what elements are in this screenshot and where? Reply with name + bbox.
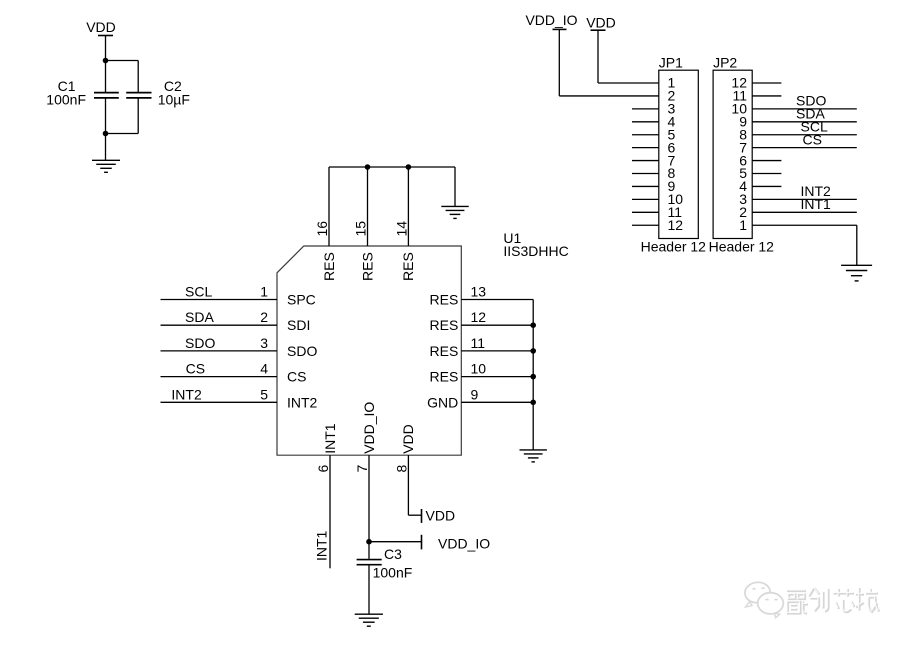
capacitor C2 10uF xyxy=(126,78,190,108)
svg-text:JP1: JP1 xyxy=(659,54,683,70)
wire stub JP2 pin 5 xyxy=(752,173,781,175)
wire C2 branch bottom xyxy=(106,98,139,134)
wire stub JP1 pin 7 xyxy=(632,160,659,162)
svg-text:SCL: SCL xyxy=(185,284,212,300)
svg-text:Header 12: Header 12 xyxy=(709,238,775,254)
node junction right bus xyxy=(530,400,536,406)
svg-text:VDD_IO: VDD_IO xyxy=(525,12,577,28)
ground (top net) xyxy=(441,206,468,218)
svg-text:12: 12 xyxy=(668,217,684,233)
svg-text:SDI: SDI xyxy=(287,317,310,333)
wire net CS to pin 4 xyxy=(161,376,278,378)
svg-text:RES: RES xyxy=(430,369,459,385)
power port VDD (top-left) xyxy=(86,19,116,61)
svg-text:RES: RES xyxy=(430,343,459,359)
wire top RES net xyxy=(329,166,455,168)
svg-text:VDD_IO: VDD_IO xyxy=(438,536,490,552)
wire net INT1 (JP2 pin 2) xyxy=(752,211,857,213)
svg-text:INT2: INT2 xyxy=(171,386,202,402)
node junction pin 14 top xyxy=(406,164,412,170)
svg-text:VDD: VDD xyxy=(426,507,456,523)
svg-text:VDD: VDD xyxy=(586,15,616,31)
wire pin 8 (VDD) xyxy=(408,455,421,515)
svg-text:VDD_IO: VDD_IO xyxy=(361,402,377,454)
wire pin 16 (top) xyxy=(328,167,330,246)
wire net SDO (JP2 pin 10) xyxy=(752,108,857,110)
wire pin 6 (INT1) xyxy=(329,455,331,568)
svg-text:RES: RES xyxy=(321,252,337,281)
ground (right bus) xyxy=(520,450,547,462)
svg-text:RES: RES xyxy=(400,252,416,281)
wire C3 top lead xyxy=(368,542,370,559)
wire C3 bottom lead xyxy=(368,565,370,615)
wire net INT2 (JP2 pin 3) xyxy=(752,198,857,200)
node junction pin7 / C3 / VDD_IO port xyxy=(366,539,372,545)
wire pin 9 (right) xyxy=(461,401,533,403)
wire stub JP1 pin 5 xyxy=(632,134,659,136)
wire stub JP1 pin 6 xyxy=(632,147,659,149)
svg-text:10µF: 10µF xyxy=(158,92,190,108)
svg-text:14: 14 xyxy=(393,221,409,237)
ground (below C3) xyxy=(355,614,383,626)
wire net SDA to pin 2 xyxy=(161,324,278,326)
svg-text:1: 1 xyxy=(260,284,268,300)
watermark emboss highlight xyxy=(786,587,879,613)
wire pin 13 (right) xyxy=(461,299,533,301)
wire C2 branch top xyxy=(106,61,139,93)
wire pin 12 (right) xyxy=(461,324,533,326)
wire pin 11 (right) xyxy=(461,350,533,352)
power port VDD (bottom) xyxy=(422,507,456,523)
wire net SCL to pin 1 xyxy=(161,299,278,301)
wire net SCL (JP2 pin 8) xyxy=(752,134,857,136)
svg-text:6: 6 xyxy=(315,465,331,473)
svg-text:INT1: INT1 xyxy=(801,196,832,212)
wire pin 10 (right) xyxy=(461,376,533,378)
wire stub JP1 pin 11 xyxy=(632,211,659,213)
wire C1 top lead xyxy=(105,61,107,93)
svg-text:16: 16 xyxy=(314,221,330,237)
svg-text:Header 12: Header 12 xyxy=(641,238,707,254)
svg-text:INT1: INT1 xyxy=(314,530,330,561)
node junction right bus xyxy=(530,374,536,380)
node junction right bus xyxy=(530,348,536,354)
svg-text:100nF: 100nF xyxy=(373,565,413,581)
svg-text:5: 5 xyxy=(260,386,268,402)
svg-text:15: 15 xyxy=(353,221,369,237)
svg-text:RES: RES xyxy=(359,252,375,281)
designator U1 xyxy=(503,230,568,259)
svg-text:11: 11 xyxy=(471,335,486,351)
svg-text:CS: CS xyxy=(803,131,822,147)
svg-text:C3: C3 xyxy=(384,546,402,562)
wire to ground xyxy=(105,134,107,161)
watermark text rong-chuang-xin-cheng (drawn strokes) xyxy=(787,588,880,614)
svg-text:2: 2 xyxy=(260,309,268,325)
connector JP2 body (Header 12) xyxy=(713,70,752,238)
svg-text:CS: CS xyxy=(287,369,306,385)
power port VDD (top, to JP1 pin 1) xyxy=(586,15,659,83)
wire JP2 pin 1 to ground xyxy=(752,225,857,265)
svg-text:VDD: VDD xyxy=(400,424,416,454)
wire down to ground (top right) xyxy=(454,167,456,206)
watermark logo speech bubbles xyxy=(744,581,783,618)
node junction right bus xyxy=(530,322,536,328)
svg-text:10: 10 xyxy=(471,361,487,377)
wire pin 7 (VDD_IO) xyxy=(368,455,370,542)
wire net CS (JP2 pin 7) xyxy=(752,147,857,149)
svg-text:12: 12 xyxy=(471,309,487,325)
svg-text:100nF: 100nF xyxy=(46,92,86,108)
wire stub JP1 pin 4 xyxy=(632,121,659,123)
svg-text:SDA: SDA xyxy=(185,309,214,325)
wire stub JP1 pin 8 xyxy=(632,173,659,175)
wire stub JP2 pin 12 xyxy=(752,82,781,84)
wire net INT2 to pin 5 xyxy=(161,401,278,403)
power port VDD_IO (top, to JP1 pin 2) xyxy=(525,12,658,96)
svg-text:SPC: SPC xyxy=(287,292,316,308)
svg-text:SDO: SDO xyxy=(287,343,317,359)
wire C1 bottom lead xyxy=(105,98,107,134)
wire stub JP1 pin 3 xyxy=(632,108,659,110)
wire stub JP1 pin 10 xyxy=(632,198,659,200)
wire pin 15 (top) xyxy=(367,167,369,246)
capacitor C3 100nF xyxy=(357,546,413,581)
connector JP1 body (Header 12) xyxy=(659,70,699,238)
wire net SDA (JP2 pin 9) xyxy=(752,121,857,123)
svg-text:JP2: JP2 xyxy=(713,54,737,70)
wire stub JP2 pin 11 xyxy=(752,95,781,97)
wire net SDO to pin 3 xyxy=(161,350,278,352)
node junction pin 15 top xyxy=(365,164,371,170)
node junction (C1 / C2 bottom / GND) xyxy=(103,131,109,137)
power port VDD_IO (bottom) xyxy=(422,535,491,552)
svg-text:13: 13 xyxy=(471,284,487,300)
svg-text:VDD: VDD xyxy=(86,19,116,35)
svg-text:9: 9 xyxy=(471,386,479,402)
svg-text:1: 1 xyxy=(739,217,747,233)
svg-text:8: 8 xyxy=(393,465,409,473)
svg-text:4: 4 xyxy=(260,361,268,377)
svg-text:3: 3 xyxy=(260,335,268,351)
svg-text:SDO: SDO xyxy=(185,335,215,351)
wire pin 14 (top) xyxy=(407,167,409,246)
svg-text:INT2: INT2 xyxy=(287,394,318,410)
svg-text:CS: CS xyxy=(186,361,205,377)
ground (JP2 pin 1) xyxy=(841,265,872,281)
svg-text:RES: RES xyxy=(430,317,459,333)
wire stub JP2 pin 6 xyxy=(752,160,781,162)
svg-text:RES: RES xyxy=(430,292,459,308)
op-amp U1 body (IIS3DHHC) xyxy=(277,246,461,455)
svg-text:7: 7 xyxy=(354,465,370,473)
ground (below C1) xyxy=(92,160,120,172)
svg-text:IIS3DHHC: IIS3DHHC xyxy=(503,243,568,259)
wire stub JP2 pin 4 xyxy=(752,185,781,187)
wire VDD_IO port xyxy=(369,541,422,543)
node junction (VDD / C1 / C2 top) xyxy=(103,58,109,64)
wire stub JP1 pin 12 xyxy=(632,224,659,226)
wire stub JP1 pin 9 xyxy=(632,185,659,187)
wire right bus down to ground xyxy=(532,300,534,450)
capacitor C1 100nF xyxy=(46,78,119,108)
svg-text:INT1: INT1 xyxy=(322,423,338,454)
svg-text:GND: GND xyxy=(427,394,458,410)
